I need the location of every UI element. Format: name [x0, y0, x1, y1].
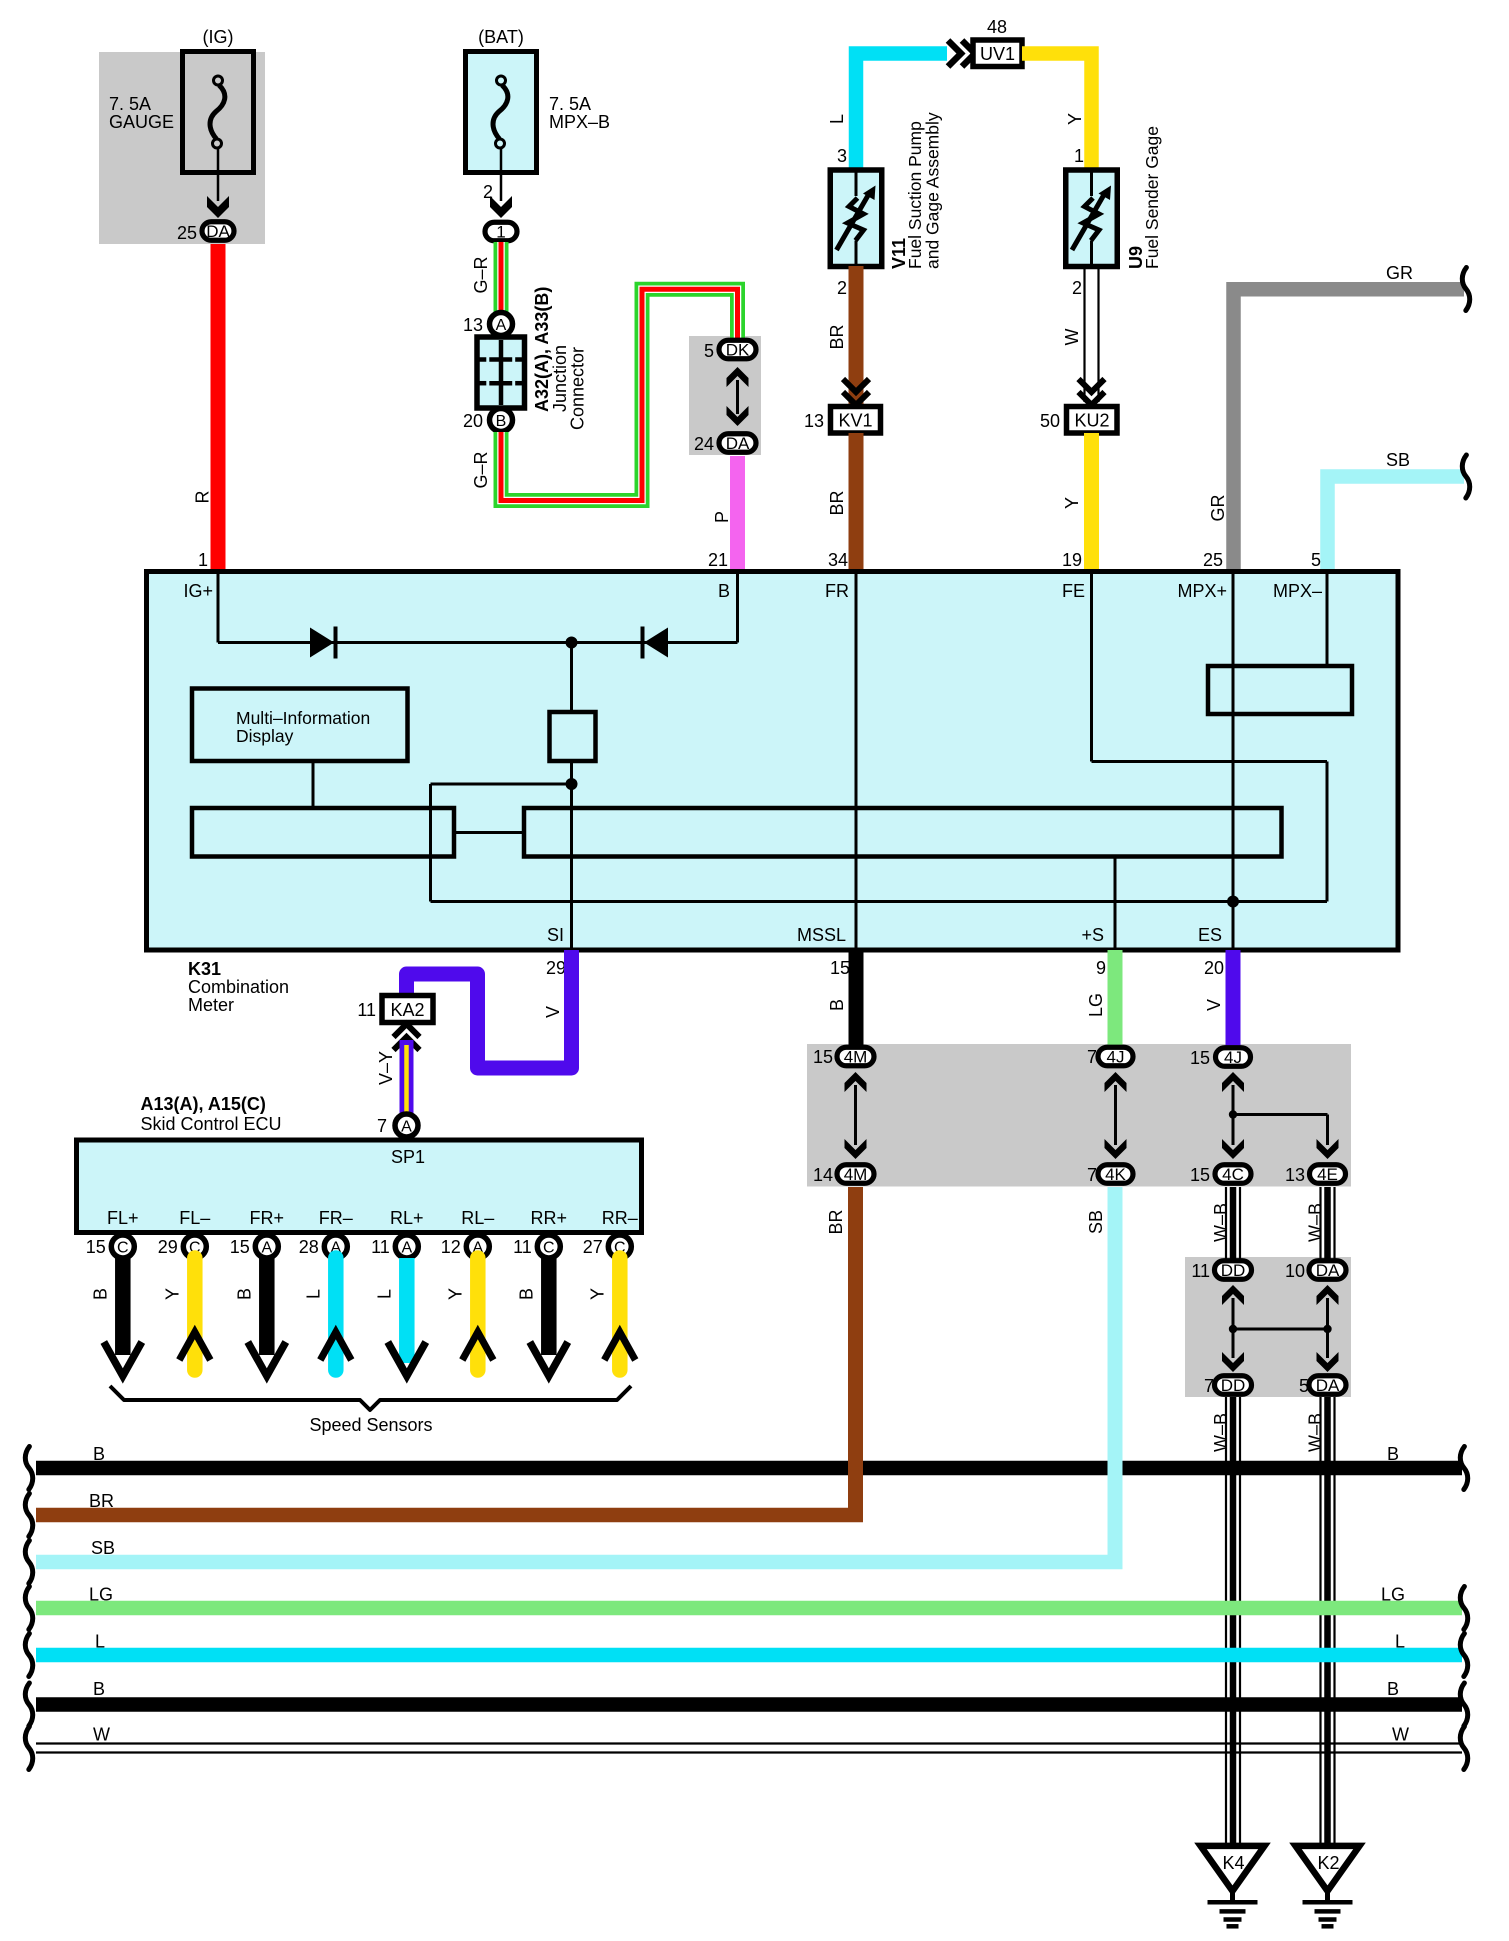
svg-text:20: 20 — [463, 411, 483, 431]
multi-information display box — [192, 689, 408, 762]
wire LG from +S to 4J — [1108, 950, 1123, 1047]
svg-text:Meter: Meter — [188, 995, 234, 1015]
fuse 7.5A GAUGE (IG) box — [183, 52, 254, 173]
bus wire W — [36, 1744, 1462, 1753]
wire V from ES to 4J — [1226, 950, 1241, 1047]
bus wire BR — [36, 1508, 863, 1523]
svg-text:24: 24 — [694, 434, 714, 454]
fuel suction pump V11 (variable resistor) — [830, 170, 882, 267]
svg-text:7: 7 — [377, 1116, 387, 1136]
svg-text:DA: DA — [1316, 1261, 1340, 1280]
wire from fuse GAUGE to connector DA — [207, 149, 229, 219]
wire B from MSSL to 4M — [849, 950, 864, 1047]
label Multi-Information Display — [236, 708, 370, 746]
internal small box — [550, 712, 596, 761]
svg-text:KA2: KA2 — [390, 1000, 424, 1020]
svg-text:SP1: SP1 — [391, 1147, 425, 1167]
svg-text:15: 15 — [830, 958, 850, 978]
svg-text:29: 29 — [158, 1237, 178, 1257]
wire V-Y from KA2 to skid control ECU pin 7 — [400, 1040, 414, 1113]
svg-text:1: 1 — [198, 550, 208, 570]
svg-text:Speed Sensors: Speed Sensors — [309, 1415, 432, 1435]
squiggle W left — [25, 1727, 32, 1770]
bus wire LG — [36, 1601, 1462, 1616]
svg-text:L: L — [827, 114, 847, 124]
connector 7 DD — [1215, 1376, 1252, 1395]
svg-text:IG+: IG+ — [183, 581, 213, 601]
wire Y speed sensor 2 (up arrow) — [187, 1258, 203, 1370]
svg-text:12: 12 — [441, 1237, 461, 1257]
svg-text:4M: 4M — [844, 1048, 868, 1067]
svg-text:FL+: FL+ — [107, 1208, 139, 1228]
speed sensors brace — [110, 1386, 631, 1410]
fuse 7.5A GAUGE symbol — [210, 76, 225, 148]
svg-text:15: 15 — [86, 1237, 106, 1257]
connector 15 C — [111, 1235, 134, 1258]
svg-text:Y: Y — [587, 1288, 607, 1300]
svg-text:15: 15 — [1190, 1165, 1210, 1185]
svg-text:B: B — [234, 1288, 254, 1300]
svg-text:4J: 4J — [1107, 1048, 1125, 1067]
svg-text:Multi–Information: Multi–Information — [236, 708, 370, 728]
svg-text:FR–: FR– — [319, 1208, 353, 1228]
svg-text:2: 2 — [1072, 278, 1082, 298]
svg-text:BR: BR — [826, 1209, 846, 1234]
wire Y speed sensor 6 (up arrow) — [470, 1258, 486, 1370]
connector 50 KU2 — [1067, 407, 1118, 434]
svg-text:5: 5 — [1311, 550, 1321, 570]
wire Y from KU2 to K31 pin 19 FE — [1084, 433, 1099, 572]
svg-text:V–Y: V–Y — [376, 1051, 396, 1085]
connector 13 KV1 — [831, 407, 881, 434]
squiggle B2 left — [25, 1683, 32, 1726]
wire BR from V11 to KV1 — [849, 266, 864, 404]
wire G-R from junction connector B to connector DK — [501, 289, 738, 500]
grey panel behind fuse (IG) — [99, 52, 265, 244]
connector B of junction connector — [490, 409, 513, 432]
squiggle W right — [1460, 1727, 1467, 1770]
wire B speed sensor 7 (down arrow) — [541, 1258, 557, 1355]
svg-text:B: B — [1387, 1444, 1399, 1464]
svg-text:LG: LG — [1086, 993, 1106, 1017]
svg-text:5: 5 — [704, 341, 714, 361]
svg-text:Display: Display — [236, 726, 294, 746]
svg-text:15: 15 — [813, 1047, 833, 1067]
connector 11 C — [537, 1235, 560, 1258]
internal diode row wire — [218, 641, 738, 644]
squiggle L right — [1460, 1634, 1467, 1677]
internal wire node to resistor box — [570, 643, 573, 713]
connector 7 4J — [1098, 1047, 1133, 1066]
arrow into UV1 — [948, 41, 961, 67]
svg-text:Y: Y — [1062, 497, 1082, 509]
svg-text:27: 27 — [583, 1237, 603, 1257]
svg-text:(BAT): (BAT) — [478, 27, 524, 47]
node junction on diode row — [566, 637, 578, 649]
arrow pair between DK and DA — [727, 367, 749, 426]
svg-text:29: 29 — [546, 958, 566, 978]
svg-text:2: 2 — [483, 182, 493, 202]
svg-text:Y: Y — [1065, 113, 1085, 125]
internal wire small box to node — [570, 761, 573, 784]
squiggle B1 right — [1460, 1447, 1467, 1490]
connector 27 C — [608, 1235, 631, 1258]
label Fuel Suction Pump and Gage Assembly — [905, 112, 943, 269]
svg-text:L: L — [95, 1632, 105, 1652]
wire P from DA to K31 pin 21 B — [730, 456, 745, 572]
connector 5 DA — [1309, 1376, 1346, 1395]
svg-text:B: B — [93, 1444, 105, 1464]
connector 1 — [485, 222, 517, 241]
svg-text:and Gage Assembly: and Gage Assembly — [923, 112, 943, 269]
connector 28 A — [324, 1235, 347, 1258]
svg-text:RL–: RL– — [461, 1208, 494, 1228]
svg-text:RR+: RR+ — [531, 1208, 568, 1228]
svg-text:25: 25 — [177, 223, 197, 243]
svg-text:B: B — [496, 413, 507, 430]
svg-text:MPX–B: MPX–B — [549, 112, 610, 132]
connector 48 UV1 — [973, 40, 1022, 67]
svg-text:SI: SI — [547, 925, 564, 945]
svg-text:7. 5A: 7. 5A — [549, 94, 591, 114]
svg-text:W–B: W–B — [1211, 1413, 1231, 1452]
skid control ECU box — [77, 1140, 642, 1233]
svg-text:BR: BR — [827, 490, 847, 515]
svg-text:MPX+: MPX+ — [1177, 581, 1227, 601]
arrow out of KA2 — [394, 1037, 420, 1050]
wire Y speed sensor 8 (up arrow) — [612, 1258, 628, 1370]
svg-text:FR: FR — [825, 581, 849, 601]
internal left long box — [192, 808, 454, 857]
combination meter K31 box — [147, 572, 1399, 951]
svg-text:A32(A), A33(B): A32(A), A33(B) — [532, 287, 552, 412]
svg-text:11: 11 — [1191, 1261, 1210, 1281]
internal wire bottom horizontal — [431, 900, 1328, 903]
svg-text:W–B: W–B — [1211, 1203, 1231, 1242]
svg-text:FL–: FL– — [179, 1208, 210, 1228]
svg-text:48: 48 — [987, 17, 1007, 37]
svg-text:A: A — [496, 317, 507, 334]
internal wire between long boxes — [454, 831, 524, 834]
wire BR from 14 4M to bus — [848, 1187, 863, 1522]
svg-text:4E: 4E — [1317, 1165, 1338, 1184]
svg-text:KV1: KV1 — [838, 411, 872, 431]
internal wire B up — [736, 572, 739, 643]
wire W-B from 4C to DD — [1225, 1187, 1227, 1259]
grey panel around connectors DD/DA — [1185, 1257, 1351, 1397]
internal wire right branch up — [1326, 762, 1329, 902]
svg-text:C: C — [543, 1240, 555, 1257]
svg-text:7. 5A: 7. 5A — [109, 94, 151, 114]
svg-text:W: W — [93, 1725, 110, 1745]
svg-text:G–R: G–R — [471, 451, 491, 488]
wire B speed sensor 1 (down arrow) — [115, 1258, 131, 1355]
svg-text:RR–: RR– — [602, 1208, 638, 1228]
node junction below small box — [566, 778, 578, 790]
svg-text:DA: DA — [206, 222, 230, 241]
svg-text:10: 10 — [1285, 1261, 1305, 1281]
wire W-B from 4E to DA — [1319, 1187, 1321, 1259]
squiggle SB end — [1462, 455, 1469, 498]
svg-text:9: 9 — [1096, 958, 1106, 978]
svg-text:ES: ES — [1198, 925, 1222, 945]
svg-text:Combination: Combination — [188, 977, 289, 997]
grey panel around connectors DK/DA — [689, 336, 761, 455]
svg-text:LG: LG — [89, 1585, 113, 1605]
connector 14 4M — [837, 1165, 874, 1184]
svg-text:A13(A), A15(C): A13(A), A15(C) — [141, 1094, 266, 1114]
connector 5 DK — [719, 340, 756, 359]
squiggle L left — [25, 1634, 32, 1677]
internal wire MPX+ to ES — [1232, 572, 1235, 950]
svg-text:(IG): (IG) — [203, 27, 234, 47]
svg-text:4K: 4K — [1105, 1165, 1126, 1184]
connector 7 4K — [1098, 1165, 1133, 1184]
internal wire +S up — [1114, 856, 1117, 950]
squiggle BR left — [25, 1494, 32, 1537]
fuse 7.5A MPX-B (BAT) box — [466, 52, 537, 173]
squiggle GR end — [1462, 268, 1469, 311]
wire W-B from DA to ground K2 — [1319, 1397, 1321, 1847]
ground K4 — [1201, 1846, 1265, 1926]
svg-text:21: 21 — [708, 550, 728, 570]
wire L speed sensor 4 (up arrow) — [328, 1258, 344, 1370]
svg-text:13: 13 — [463, 315, 483, 335]
bus wire B (1) — [36, 1461, 1462, 1476]
svg-text:FR+: FR+ — [250, 1208, 285, 1228]
svg-text:Y: Y — [445, 1288, 465, 1300]
grey panel around connectors 4M/4J/4K/4C/4E — [807, 1044, 1351, 1187]
svg-text:B: B — [1387, 1679, 1399, 1699]
svg-text:LG: LG — [1381, 1585, 1405, 1605]
svg-text:MSSL: MSSL — [797, 925, 846, 945]
fuel sender gage U9 (variable resistor) — [1066, 170, 1118, 267]
internal wire FE horizontal — [1092, 760, 1328, 763]
squiggle B2 right — [1460, 1683, 1467, 1726]
connector 15 4M — [837, 1047, 874, 1066]
svg-text:11: 11 — [357, 1000, 376, 1020]
svg-text:BR: BR — [827, 324, 847, 349]
svg-text:DK: DK — [726, 341, 750, 360]
label 7.5A MPX-B — [549, 94, 610, 132]
connector 15 4C — [1215, 1165, 1251, 1184]
svg-text:K2: K2 — [1317, 1853, 1339, 1873]
bus wire L — [36, 1648, 1462, 1663]
svg-text:1: 1 — [496, 223, 505, 242]
svg-text:K31: K31 — [188, 959, 221, 979]
svg-text:SB: SB — [91, 1538, 115, 1558]
wire from fuse MPX-B pin 2 to connector 1 — [490, 149, 512, 219]
svg-text:DD: DD — [1221, 1261, 1246, 1280]
svg-text:GAUGE: GAUGE — [109, 112, 174, 132]
connector 25 DA — [202, 222, 234, 241]
wire G-R from connector 1 to junction connector A — [494, 242, 509, 312]
arrows between DD/DA connectors — [1222, 1285, 1339, 1372]
bus wire B (2) — [36, 1697, 1462, 1712]
label 7.5A GAUGE — [109, 94, 174, 132]
connector 11 DD — [1215, 1261, 1252, 1280]
wire L from V11 pin 3 to UV1 — [856, 54, 947, 173]
internal wire FR to MSSL — [855, 572, 858, 950]
svg-text:W: W — [1062, 329, 1082, 346]
wire R from DA to K31 pin 1 IG+ — [211, 244, 226, 572]
internal wire MPX- down — [1326, 572, 1329, 668]
squiggle B1 left — [25, 1447, 32, 1490]
svg-text:FE: FE — [1062, 581, 1085, 601]
svg-text:GR: GR — [1208, 494, 1228, 521]
squiggle SB left — [25, 1541, 32, 1584]
wire SB from right edge to K31 pin 5 MPX- — [1328, 477, 1465, 573]
internal wire IG+ down — [217, 572, 220, 643]
svg-text:2: 2 — [837, 278, 847, 298]
svg-text:34: 34 — [828, 550, 848, 570]
svg-text:Skid Control ECU: Skid Control ECU — [141, 1114, 282, 1134]
svg-text:4J: 4J — [1224, 1048, 1242, 1067]
svg-text:28: 28 — [299, 1237, 319, 1257]
svg-text:B: B — [718, 581, 730, 601]
label K31 Combination Meter — [188, 959, 289, 1015]
svg-text:B: B — [827, 999, 847, 1011]
wire W from U9 to KU2 — [1083, 266, 1085, 402]
internal wire SI down — [570, 784, 573, 950]
svg-text:13: 13 — [1285, 1165, 1305, 1185]
wire W-B from DD to ground K4 — [1225, 1397, 1227, 1847]
svg-text:GR: GR — [1386, 263, 1413, 283]
svg-text:14: 14 — [813, 1165, 833, 1185]
svg-text:RL+: RL+ — [390, 1208, 424, 1228]
svg-text:SB: SB — [1386, 450, 1410, 470]
svg-text:15: 15 — [230, 1237, 250, 1257]
arrow into KU2 — [1079, 379, 1105, 392]
connector 13 4E — [1310, 1165, 1346, 1184]
svg-text:W–B: W–B — [1306, 1203, 1326, 1242]
arrow into KV1 — [843, 379, 869, 392]
fuse 7.5A MPX-B symbol — [493, 76, 508, 148]
svg-text:BR: BR — [89, 1491, 114, 1511]
svg-text:R: R — [193, 491, 213, 504]
svg-text:DD: DD — [1221, 1376, 1246, 1395]
svg-text:KU2: KU2 — [1074, 411, 1109, 431]
svg-text:Fuel Sender Gage: Fuel Sender Gage — [1142, 126, 1162, 269]
connector 10 DA — [1309, 1261, 1346, 1280]
svg-text:3: 3 — [837, 146, 847, 166]
svg-text:11: 11 — [513, 1237, 532, 1257]
svg-text:Y: Y — [162, 1288, 182, 1300]
svg-text:19: 19 — [1062, 550, 1082, 570]
internal wire display to left box — [312, 761, 315, 808]
svg-text:Connector: Connector — [568, 347, 588, 430]
connector 24 DA — [719, 434, 756, 453]
svg-text:B: B — [90, 1288, 110, 1300]
svg-text:W–B: W–B — [1306, 1413, 1326, 1452]
connector 11 A — [395, 1235, 418, 1258]
svg-text:+S: +S — [1081, 925, 1104, 945]
label Junction Connector — [550, 345, 588, 430]
connector 15 4J — [1216, 1048, 1251, 1067]
svg-text:1: 1 — [1074, 146, 1084, 166]
internal wire node left — [431, 783, 572, 786]
internal right long box — [524, 808, 1282, 857]
svg-text:V: V — [1204, 999, 1224, 1011]
svg-text:B: B — [93, 1679, 105, 1699]
svg-text:MPX–: MPX– — [1273, 581, 1322, 601]
bus wire SB — [36, 1555, 1123, 1570]
wire Y from UV1 to U9 pin 1 — [1022, 54, 1092, 173]
svg-text:25: 25 — [1203, 550, 1223, 570]
svg-text:A: A — [401, 1240, 412, 1257]
wire B speed sensor 3 (down arrow) — [259, 1258, 275, 1355]
wire GR from right edge to K31 pin 25 MPX+ — [1234, 289, 1465, 572]
connector A of junction connector — [490, 313, 513, 336]
svg-text:G–R: G–R — [471, 256, 491, 293]
svg-text:K4: K4 — [1222, 1853, 1244, 1873]
svg-text:4C: 4C — [1222, 1165, 1244, 1184]
svg-text:P: P — [712, 511, 732, 523]
connector 15 A — [255, 1235, 278, 1258]
wire L speed sensor 5 (down arrow) — [399, 1258, 415, 1363]
svg-text:50: 50 — [1040, 411, 1060, 431]
svg-text:20: 20 — [1204, 958, 1224, 978]
diode D2 (anode right) — [643, 627, 669, 659]
svg-text:B: B — [516, 1288, 536, 1300]
svg-text:SB: SB — [1086, 1210, 1106, 1234]
wire BR from KV1 to K31 pin 34 FR — [849, 433, 864, 572]
internal wire FE down — [1090, 572, 1093, 762]
svg-text:L: L — [374, 1289, 394, 1299]
diode D1 (anode left) — [310, 627, 336, 659]
junction connector A32(A) A33(B) box — [477, 337, 525, 408]
squiggle LG left — [25, 1587, 32, 1630]
svg-text:A: A — [261, 1240, 272, 1257]
svg-text:UV1: UV1 — [980, 44, 1015, 64]
internal MPX transceiver box — [1208, 666, 1352, 714]
svg-text:V: V — [543, 1006, 563, 1018]
connector 29 C — [183, 1235, 206, 1258]
squiggle LG right — [1460, 1587, 1467, 1630]
svg-text:A: A — [401, 1119, 412, 1136]
ground K2 — [1296, 1846, 1360, 1926]
arrow from 4J down with branch — [1222, 1072, 1339, 1159]
svg-text:4M: 4M — [844, 1165, 868, 1184]
node junction on ES line — [1227, 896, 1239, 908]
svg-text:L: L — [303, 1289, 323, 1299]
internal wire left branch down — [429, 784, 432, 902]
svg-text:15: 15 — [1190, 1048, 1210, 1068]
connector 7 A (skid control ECU) — [395, 1114, 418, 1137]
svg-text:C: C — [117, 1240, 129, 1257]
arrow pair between 4J and 4K — [1105, 1072, 1127, 1159]
svg-text:11: 11 — [371, 1237, 390, 1257]
connector 12 A — [466, 1235, 489, 1258]
connector 11 KA2 — [382, 996, 433, 1023]
svg-text:13: 13 — [804, 411, 824, 431]
svg-text:L: L — [1395, 1632, 1405, 1652]
wire SB from 4K to bus — [1108, 1187, 1123, 1569]
svg-text:DA: DA — [1316, 1376, 1340, 1395]
arrow pair between 4M connectors — [845, 1072, 867, 1159]
svg-text:DA: DA — [726, 434, 750, 453]
svg-text:W: W — [1392, 1725, 1409, 1745]
wire V from SI to KA2 — [407, 950, 572, 1068]
